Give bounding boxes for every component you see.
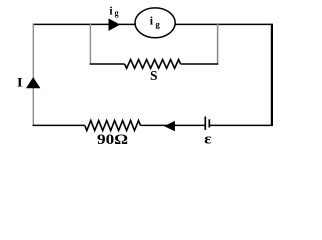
svg-text:90Ω: 90Ω: [97, 132, 128, 148]
svg-text:ε: ε: [204, 131, 212, 147]
svg-text:g: g: [155, 19, 160, 29]
svg-text:S: S: [150, 69, 158, 84]
svg-text:I: I: [17, 75, 23, 89]
